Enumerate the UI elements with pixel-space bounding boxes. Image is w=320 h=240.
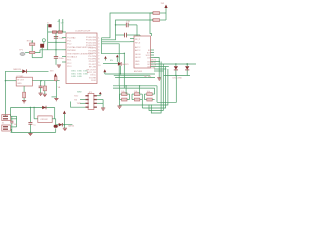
wire input to regulator <box>5 80 16 82</box>
svg-text:GND: GND <box>135 64 140 66</box>
resistor R9 <box>132 98 142 101</box>
capacitor C8 bars <box>54 37 58 39</box>
junction reset top <box>32 41 33 42</box>
junction C7 top <box>30 107 31 108</box>
staircase wire D <box>149 64 163 110</box>
header JP1 box <box>88 93 94 109</box>
junction D3 top <box>186 63 188 65</box>
resistor R11 row1 left <box>52 31 56 33</box>
VCC arrow feeding triplet a <box>103 69 106 74</box>
svg-text:TDO: TDO <box>74 96 79 98</box>
LED area wire row5 short <box>154 70 164 72</box>
U1 internal green net texts <box>71 71 89 78</box>
junction rail y49.8 <box>55 49 56 50</box>
svg-text:LED_GND: LED_GND <box>173 78 183 80</box>
connector X2 <box>2 125 11 131</box>
junction D2 top <box>175 63 176 64</box>
svg-text:IN OUT: IN OUT <box>17 80 25 82</box>
crystal Y2 right lead <box>52 118 56 120</box>
power: left rail down <box>4 71 6 115</box>
left rail of pullup block <box>119 86 121 106</box>
connector X1 <box>2 115 11 121</box>
svg-text:CR2032: CR2032 <box>40 119 48 121</box>
ground under R13 <box>22 101 26 103</box>
svg-text:TDI: TDI <box>74 99 78 101</box>
wire cap C9 to ground <box>55 58 57 64</box>
svg-text:RF_XIN: RF_XIN <box>89 67 97 69</box>
svg-text:VCORE: VCORE <box>89 77 97 79</box>
top-left junction blob <box>48 24 51 27</box>
wire Q1 down <box>119 66 121 74</box>
wire R1 down <box>31 45 33 57</box>
net labels right of U2 <box>151 59 157 69</box>
wire X1 pin2 <box>11 118 17 120</box>
LED D3 <box>185 64 189 76</box>
wire S1 down <box>41 48 43 58</box>
junction bottom wire <box>30 132 32 134</box>
svg-text:RF_XOUT: RF_XOUT <box>87 69 97 71</box>
svg-text:MBR120: MBR120 <box>13 69 22 71</box>
ground under C2 <box>39 93 43 95</box>
wire X2 pin1 <box>11 126 17 128</box>
junction output b <box>56 80 58 82</box>
U1 left pin stubs <box>62 38 66 63</box>
diode D5 on wire <box>59 123 63 126</box>
resistor R7 <box>144 93 154 96</box>
junction lower fanout <box>124 53 125 54</box>
pullup area top wire2 <box>113 87 155 89</box>
svg-text:RF_N: RF_N <box>135 42 141 44</box>
VCC arrow bottom cluster <box>63 111 66 125</box>
svg-text:ANT-868: ANT-868 <box>134 70 143 73</box>
junction LED bottom <box>175 75 176 76</box>
LED area wire row1 <box>154 61 160 63</box>
VCC arrow above header right <box>99 92 102 96</box>
wire triplet b <box>114 75 150 77</box>
resistor R13 below regulator <box>23 86 26 100</box>
junction rail y42.3 <box>55 42 56 43</box>
svg-text:MOSI: MOSI <box>151 59 157 61</box>
VCC arrow symbol <box>164 5 167 21</box>
header row4 left wire <box>71 102 86 108</box>
ground symbol under C9 <box>57 65 61 67</box>
svg-text:GDO0: GDO0 <box>135 54 142 56</box>
svg-text:1u: 1u <box>33 125 35 127</box>
U1 right bus collector vertical <box>101 38 103 55</box>
left vertical to Y2 <box>33 108 35 119</box>
resistor R10 <box>144 98 154 101</box>
crystal Y2 box <box>38 116 52 123</box>
header right wire row3 <box>97 102 103 104</box>
ground below bottom wire <box>28 133 32 135</box>
staircase wire C <box>142 67 165 109</box>
wire triplet a <box>105 73 155 75</box>
junction input <box>5 80 6 81</box>
LED area wire row2 <box>154 63 196 65</box>
header right wire row2 <box>97 99 103 101</box>
svg-text:SBW: SBW <box>77 92 82 94</box>
pullup area top wire1 <box>113 85 157 87</box>
capacitor C3 electrolytic <box>43 81 46 94</box>
wire top row1 <box>48 31 66 33</box>
right vertical from Y2 <box>54 108 56 119</box>
wire IC pin row y49.8 <box>40 49 62 51</box>
wire triplet c <box>115 76 155 78</box>
wire X1 pin1 <box>11 115 17 117</box>
VCC arrow mid right of U1 <box>104 56 107 61</box>
junction top wire b <box>139 85 140 86</box>
ferrite bead L1 <box>54 77 57 81</box>
header right drop vertical <box>102 100 104 108</box>
svg-text:P3.3/UCB0: P3.3/UCB0 <box>86 45 97 47</box>
wire R3 left down to U2 top <box>150 13 153 36</box>
wire IC pin row y42.3 <box>48 41 62 43</box>
wire X2 pin2 jog <box>10 129 13 132</box>
svg-text:BAT54: BAT54 <box>68 124 75 127</box>
crystal Y2 left lead <box>34 118 38 120</box>
staircase wire B <box>120 69 168 105</box>
LED area wire row4 <box>154 68 166 70</box>
wire U1 to U2 RF pin <box>102 41 130 43</box>
LED D2 <box>174 64 178 76</box>
resistor R4 <box>153 19 166 22</box>
capacitor C14 <box>116 33 141 38</box>
rail DV vertical <box>62 19 64 32</box>
wire loop inner from U1 to R4 <box>102 20 153 40</box>
rail left vertical to row components <box>47 24 49 50</box>
U1 right pin number texts <box>98 37 101 67</box>
ground symbol right of header <box>101 108 105 110</box>
svg-text:P3.0/UCB0: P3.0/UCB0 <box>86 37 97 39</box>
pullup column verticals <box>120 86 158 108</box>
svg-text:CC430F5137-RF: CC430F5137-RF <box>75 30 91 32</box>
wire cap chain rail vertical <box>55 33 57 56</box>
capacitor C5 <box>10 116 13 132</box>
resistor R12 row1 right <box>58 31 62 33</box>
wire ring to switch <box>43 42 45 44</box>
ground symbol pullup left <box>117 106 121 108</box>
resistor R2 <box>30 51 35 53</box>
LED area wire row3 <box>154 66 169 68</box>
U1 right pin name texts <box>86 37 97 82</box>
wire R2 right <box>35 50 40 53</box>
VCC arrow small near Q1 <box>116 55 119 62</box>
svg-text:P5.1/XT: P5.1/XT <box>89 64 97 66</box>
junction bottom cluster <box>64 124 66 126</box>
svg-text:P5.0/XT: P5.0/XT <box>89 61 97 63</box>
ground symbol LED area <box>157 78 161 80</box>
svg-text:GND GND: GND GND <box>71 76 83 78</box>
svg-text:100n: 100n <box>59 58 63 60</box>
svg-text:RST/NMI: RST/NMI <box>67 50 76 52</box>
svg-text:P3.4/PM: P3.4/PM <box>88 48 96 50</box>
svg-text:P3.6/PM: P3.6/PM <box>88 53 96 55</box>
vertical X1 to X2 <box>16 116 18 127</box>
resistor R3 <box>153 12 166 15</box>
bottom cluster wire <box>56 124 73 126</box>
svg-text:GND: GND <box>135 61 140 63</box>
ground under battery rail <box>54 98 58 100</box>
U2 left pin stubs <box>130 39 134 42</box>
junction triplet a with Q1 drop <box>120 73 121 74</box>
capacitor C7 <box>28 108 32 133</box>
junction output a <box>40 80 41 81</box>
svg-text:P3.7/PM: P3.7/PM <box>88 56 96 58</box>
svg-text:P4.0/PM: P4.0/PM <box>88 59 96 61</box>
svg-text:P2.0/ACLK: P2.0/ACLK <box>67 56 78 59</box>
svg-text:RF_SW: RF_SW <box>144 76 151 78</box>
resistor R5 <box>120 93 130 96</box>
capacitor C9 bars <box>54 57 58 59</box>
regulator text inside <box>17 80 25 85</box>
battery rail vertical <box>55 81 57 99</box>
ground bottom cluster <box>63 125 67 131</box>
capacitor C13 <box>116 23 138 28</box>
battery rail branch <box>52 96 57 98</box>
junction top wire a <box>125 85 126 86</box>
svg-text:P3.1/UCB0: P3.1/UCB0 <box>86 40 97 42</box>
svg-text:GND: GND <box>17 83 22 85</box>
header left net labels <box>74 96 81 105</box>
wire U1 down bus a <box>102 44 120 86</box>
wire mid left vertical <box>10 108 12 117</box>
staircase wire E <box>151 62 161 114</box>
junction mid wire left <box>33 107 34 108</box>
junction loop outer at R3 <box>152 12 153 13</box>
reset circuit: top net stub <box>31 40 33 43</box>
cap CE ellipse <box>54 119 58 128</box>
wire pad to R2 <box>25 52 29 54</box>
resistor R1 <box>30 43 35 45</box>
wire ellipse to bottom <box>55 128 57 132</box>
svg-text:RF_P: RF_P <box>135 39 141 41</box>
wire loop outer from U1 to R3 <box>102 13 153 38</box>
test pad ellipse <box>20 52 25 55</box>
svg-text:GDO2: GDO2 <box>135 57 142 59</box>
wire C14 down to U2 top <box>139 35 141 36</box>
svg-text:100n: 100n <box>59 38 63 40</box>
wire C13 down to U2 top <box>136 25 138 36</box>
resistor R6 <box>132 93 142 96</box>
header right wire row1 <box>97 95 100 97</box>
rail AV vertical <box>58 19 60 32</box>
wire U1 lower fanout <box>102 52 125 54</box>
junction row1 <box>57 31 58 32</box>
junction loop inner at R4 <box>152 19 153 20</box>
LED bottom wire <box>164 75 190 77</box>
svg-text:P3.5/PM: P3.5/PM <box>88 50 96 52</box>
VCC ring symbol above S1 <box>42 39 45 42</box>
header JP1 right pin bars <box>94 95 97 108</box>
resistor R8 <box>120 98 130 101</box>
wire bottom across <box>32 57 42 59</box>
svg-text:10u: 10u <box>14 124 17 126</box>
capacitor C2 <box>39 81 43 93</box>
ground branch wire <box>154 58 159 78</box>
diode D4 on wire <box>42 106 46 110</box>
svg-text:AVCC: AVCC <box>135 49 141 52</box>
header JP1 left pin bars <box>85 95 88 108</box>
wire regulator output <box>32 80 59 82</box>
U2 right pin stubs <box>151 50 155 67</box>
diode Q1 blob <box>103 62 121 66</box>
svg-text:DVCC: DVCC <box>90 75 96 77</box>
svg-text:AVCC: AVCC <box>135 46 141 49</box>
wire U1 down bus b <box>123 53 125 88</box>
svg-text:AVCC_RF: AVCC_RF <box>87 71 97 74</box>
svg-text:TMS: TMS <box>77 103 82 105</box>
header left wires <box>80 100 85 104</box>
junction C13 at bus <box>115 24 116 25</box>
wire mid horizontal <box>11 107 55 109</box>
svg-text:BAS70: BAS70 <box>122 63 129 66</box>
svg-text:P3.2/UCB0: P3.2/UCB0 <box>86 42 97 44</box>
IC U1 main MCU box <box>66 33 97 84</box>
svg-text:DVIO: DVIO <box>91 80 96 82</box>
svg-text:P1.0/TA0: P1.0/TA0 <box>67 36 76 39</box>
switch S1 body (solid) <box>40 44 44 48</box>
power: top input wire <box>5 70 48 72</box>
U2 right inner pin texts <box>146 50 151 69</box>
staircase wire A <box>157 76 176 103</box>
IC U2 radio box <box>134 36 151 68</box>
ground under C3 <box>43 94 47 96</box>
U2 left pin texts <box>135 39 142 66</box>
U1 left pin name texts <box>67 36 93 68</box>
diode D1 <box>22 69 26 73</box>
VCC arrow power out <box>50 71 57 77</box>
regulator IC3 box <box>16 77 32 86</box>
bottom long wire <box>11 131 56 133</box>
